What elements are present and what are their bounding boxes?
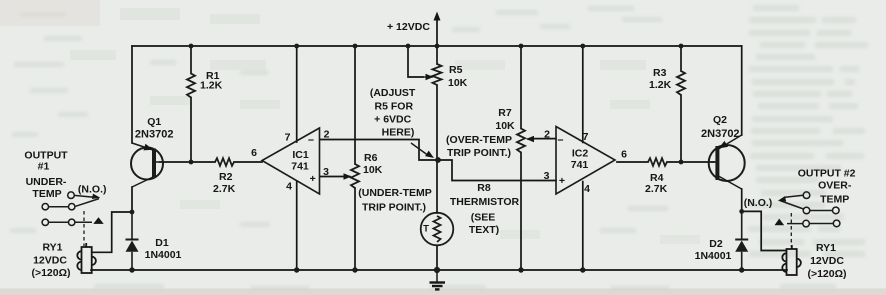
svg-text:R8: R8 <box>477 182 491 194</box>
svg-text:Q2: Q2 <box>713 114 727 126</box>
svg-text:R5: R5 <box>449 64 463 76</box>
wire R5 wiper tie to rail <box>408 46 423 77</box>
svg-text:IC1: IC1 <box>292 149 309 161</box>
svg-text:12VDC: 12VDC <box>33 255 67 267</box>
wire IC2 pin 7 to rail <box>582 46 584 142</box>
wire R2 to IC1 output pin 6 <box>234 161 262 163</box>
svg-text:−: − <box>557 135 563 147</box>
relay RY1 contacts (right, N.O.) <box>780 192 840 227</box>
svg-text:1.2K: 1.2K <box>649 79 672 91</box>
svg-text:HERE): HERE) <box>382 127 415 139</box>
svg-text:2: 2 <box>544 129 550 141</box>
svg-text:7: 7 <box>583 131 589 143</box>
wire Q1 collector to node <box>131 187 133 212</box>
wire IC1 pin 7 to rail <box>296 46 298 142</box>
svg-text:D2: D2 <box>709 238 723 250</box>
svg-text:UNDER-: UNDER- <box>26 176 67 188</box>
svg-text:(N.O.): (N.O.) <box>78 184 107 196</box>
potentiometer R7 10K (over-temp trip) <box>517 129 525 153</box>
svg-text:TEXT): TEXT) <box>469 224 499 236</box>
wire IC2 pin 4 to ground rail <box>582 182 584 270</box>
wire trip node to IC2 pin 3 <box>437 160 556 181</box>
svg-text:4: 4 <box>286 181 292 193</box>
potentiometer R5 10K <box>433 64 442 85</box>
svg-text:TEMP: TEMP <box>32 188 61 200</box>
mechanical link dashes (right relay) <box>790 213 792 247</box>
wire IC2 pin 2 stub to R7 wiper <box>533 138 556 140</box>
resistor R3 1.2K <box>677 71 685 95</box>
svg-text:2.7K: 2.7K <box>645 183 668 195</box>
svg-text:2: 2 <box>324 129 330 141</box>
op-amp IC2 741 <box>556 127 615 195</box>
wire Q2 collector to node <box>741 189 743 212</box>
svg-text:1N4001: 1N4001 <box>145 249 182 261</box>
wire relay2 coil to collector node <box>742 211 786 250</box>
svg-text:#1: #1 <box>38 161 50 173</box>
svg-text:Q1: Q1 <box>147 116 161 128</box>
svg-text:+ 6VDC: + 6VDC <box>374 114 411 126</box>
svg-text:1N4001: 1N4001 <box>695 250 732 262</box>
wire Q1 base to R2 <box>160 161 215 163</box>
wire +12V top rail <box>132 45 742 47</box>
relay RY1 coil (left) <box>77 243 96 273</box>
transistor Q1 2N3702 <box>131 143 163 187</box>
svg-text:−: − <box>308 135 314 147</box>
wire R4 to Q2 base <box>667 161 714 163</box>
svg-text:R2: R2 <box>219 171 233 183</box>
svg-text:T: T <box>423 224 429 235</box>
svg-text:(>120Ω): (>120Ω) <box>31 267 70 279</box>
wire R3 column <box>680 46 682 162</box>
wire IC1 pin 3 stub <box>320 176 344 178</box>
label +12VDC supply <box>434 12 441 21</box>
svg-text:RY1: RY1 <box>42 242 62 254</box>
svg-text:10K: 10K <box>363 164 383 176</box>
svg-text:4: 4 <box>584 183 590 195</box>
svg-text:2N3702: 2N3702 <box>701 128 740 140</box>
mechanical link dashes (left relay) <box>83 211 85 246</box>
resistor R2 2.7K <box>215 158 234 166</box>
svg-text:741: 741 <box>571 159 589 171</box>
svg-text:(ADJUST: (ADJUST <box>370 87 416 99</box>
wire +12VDC supply arrow stem <box>436 19 438 46</box>
svg-text:RY1: RY1 <box>816 242 836 254</box>
diode D1 1N4001 <box>126 212 139 270</box>
relay RY1 contacts (left, N.O.) <box>42 192 99 226</box>
svg-text:6: 6 <box>251 147 257 159</box>
diode D2 1N4001 <box>735 212 748 270</box>
wire IC2 pin 6 output to R4 <box>617 161 648 163</box>
svg-text:R3: R3 <box>653 67 667 79</box>
wire relay1 coil to collector node <box>92 212 132 252</box>
svg-text:+: + <box>310 173 316 185</box>
wire IC1 pin 2 to trip node <box>320 140 438 161</box>
svg-text:2.7K: 2.7K <box>213 183 236 195</box>
wire left vertical rail to Q1 emitter <box>131 46 133 143</box>
resistor R1 1.2K <box>187 74 195 98</box>
svg-text:TRIP POINT.): TRIP POINT.) <box>362 202 426 214</box>
svg-text:12VDC: 12VDC <box>810 255 844 267</box>
svg-text:R6: R6 <box>364 152 378 164</box>
svg-text:OVER-: OVER- <box>818 179 852 191</box>
wire R5 column and node to thermistor <box>436 46 438 270</box>
svg-text:(>120Ω): (>120Ω) <box>807 268 846 280</box>
svg-text:741: 741 <box>291 161 309 173</box>
wire IC1 pin 4 to ground rail <box>296 181 298 270</box>
wire R6 column <box>354 46 356 270</box>
svg-text:D1: D1 <box>155 237 169 249</box>
svg-text:(UNDER-TEMP: (UNDER-TEMP <box>358 187 432 199</box>
svg-text:TRIP POINT.): TRIP POINT.) <box>447 147 511 159</box>
svg-text:(OVER-TEMP: (OVER-TEMP <box>446 134 512 146</box>
wire R7 column <box>520 46 522 270</box>
svg-text:10K: 10K <box>495 120 515 132</box>
relay RY1 coil (right) <box>782 245 801 275</box>
transistor Q2 2N3702 <box>709 135 745 189</box>
svg-text:+ 12VDC: + 12VDC <box>387 21 430 33</box>
svg-text:THERMISTOR: THERMISTOR <box>450 196 520 208</box>
op-amp IC1 741 <box>262 128 320 194</box>
svg-text:IC2: IC2 <box>572 148 589 160</box>
wire ground bottom rail <box>91 269 787 271</box>
svg-text:R7: R7 <box>498 107 512 119</box>
svg-text:10K: 10K <box>448 77 468 89</box>
svg-text:1.2K: 1.2K <box>200 80 223 92</box>
wire Q2 emitter to rail right end <box>741 46 743 135</box>
svg-text:(SEE: (SEE <box>471 212 496 224</box>
svg-text:6: 6 <box>621 149 627 161</box>
ground symbol <box>430 270 446 289</box>
svg-text:(N.O.): (N.O.) <box>744 197 773 209</box>
potentiometer R6 10K (under-temp trip) <box>351 164 359 188</box>
wire R1 column <box>190 46 192 162</box>
svg-text:OUTPUT #2: OUTPUT #2 <box>798 168 856 180</box>
thermistor R8 <box>421 213 454 246</box>
svg-text:3: 3 <box>323 166 329 178</box>
resistor R4 2.7K <box>648 158 667 166</box>
svg-text:TEMP: TEMP <box>820 194 849 206</box>
svg-text:7: 7 <box>285 132 291 144</box>
svg-text:2N3702: 2N3702 <box>135 129 174 141</box>
svg-text:+: + <box>559 175 565 187</box>
svg-text:R5 FOR: R5 FOR <box>375 101 414 113</box>
svg-text:3: 3 <box>544 170 550 182</box>
